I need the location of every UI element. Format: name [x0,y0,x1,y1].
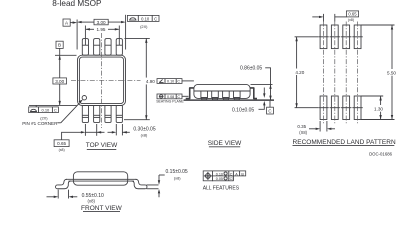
front view right gull-wing [132,179,148,188]
front view label [81,205,123,212]
dimension 0.65 pitch with leader [54,131,104,152]
front view body [73,172,127,185]
svg-text:C: C [154,16,157,21]
side view label [208,140,242,147]
svg-text:0.05: 0.05 [216,177,223,181]
extension line left of 3.00 width [76,20,78,50]
datum C [267,101,274,114]
svg-text:0.65: 0.65 [348,12,357,17]
top view vertical centerline [101,33,103,128]
svg-text:SEATING PLANE: SEATING PLANE [156,99,184,103]
svg-text:1.30: 1.30 [374,106,383,111]
front view lead lines through body [66,179,137,181]
svg-text:C: C [230,172,233,176]
dimension 5.50 [361,25,399,120]
svg-text:0.35: 0.35 [297,124,306,129]
land pattern bottom row pads [320,96,361,120]
feature control frame side lower (0.08 C seating plane) [157,94,189,99]
top view body [78,55,126,105]
svg-text:0.86±0.05: 0.86±0.05 [240,66,262,72]
side view leads [201,91,240,100]
svg-text:ALL FEATURES: ALL FEATURES [203,185,240,191]
top view label [86,142,118,149]
svg-text:PIN #1 CORNER: PIN #1 CORNER [22,121,58,126]
datum A [63,19,77,26]
dimension 0.35 pad width [297,121,335,135]
feature control frame bottom left (profile 0.10 C) [29,105,59,112]
svg-text:0.10: 0.10 [167,80,174,84]
svg-text:0.10±0.05: 0.10±0.05 [232,107,254,113]
svg-text:0.15±0.05: 0.15±0.05 [166,169,188,175]
svg-text:DOC-01686: DOC-01686 [369,152,393,157]
svg-text:(x8): (x8) [174,176,181,181]
dimension 0.30±0.05 lead width [108,126,156,137]
side view left gull-wing lead [186,88,194,99]
svg-text:5.50: 5.50 [387,71,396,76]
svg-text:(x8): (x8) [348,18,354,22]
svg-text:C: C [54,108,57,113]
bottom extension lines under leads [85,124,122,136]
svg-text:8-lead MSOP: 8-lead MSOP [52,0,102,8]
svg-text:SIDE VIEW: SIDE VIEW [208,140,242,147]
top view horizontal centerline [71,80,141,82]
svg-text:(x8): (x8) [87,199,95,204]
pin #1 corner label [22,100,83,126]
svg-text:(x8): (x8) [141,132,148,137]
dimension 0.86±0.05 [240,66,273,101]
svg-text:4.20: 4.20 [295,70,304,75]
dimension 4.90 [124,38,158,119]
svg-text:C: C [268,108,271,113]
svg-text:1.95: 1.95 [97,27,106,32]
dimension 0.65 pad pitch [312,11,358,22]
side view body [194,84,250,98]
dimension 1.30 pad length [361,96,387,120]
svg-text:(2X): (2X) [140,24,148,29]
svg-text:(X8): (X8) [299,130,307,135]
top view upper leads [82,39,122,56]
feature control frame side upper (angularity 0.10 C) [157,79,194,84]
dimension 0.55±0.10 foot length [47,190,105,204]
svg-text:0.08: 0.08 [167,95,174,99]
svg-text:0.10: 0.10 [42,108,51,113]
dimension 0.10±0.05 standoff [232,88,266,114]
dimension 3.00 horizontal [77,19,126,25]
dimension 1.95 [85,26,119,46]
svg-text:0.10: 0.10 [216,172,223,176]
svg-text:FRONT VIEW: FRONT VIEW [81,205,123,212]
extension line right of 3.00 width [125,15,127,50]
svg-text:3.00: 3.00 [97,20,106,25]
dimension 4.20 [291,37,318,108]
svg-text:B: B [58,43,61,48]
position tolerance frame [203,171,246,181]
datum B [56,41,63,48]
dimension 3.00 vertical [29,48,77,105]
svg-text:0.65: 0.65 [57,141,66,146]
svg-text:(x8): (x8) [59,148,65,152]
svg-text:(2X): (2X) [40,115,48,120]
top view lower leads [82,105,122,122]
feature control frame top right (profile 0.10 C) [127,15,159,21]
land pattern pad cross ticks [295,37,363,108]
svg-text:TOP VIEW: TOP VIEW [86,142,118,149]
land pattern top row pads [320,25,361,49]
dimension 0.15±0.05 lead thickness [147,169,188,197]
svg-text:RECOMMENDED LAND PATTERN: RECOMMENDED LAND PATTERN [293,139,396,146]
land pattern pad centerlines [324,22,358,125]
side view right gull-wing lead [250,88,257,99]
svg-text:4.90: 4.90 [146,79,155,84]
svg-text:3.00: 3.00 [55,79,64,84]
svg-text:C: C [177,95,180,99]
svg-text:C: C [177,80,180,84]
pin 1 circle [82,96,86,100]
land pattern label [293,139,396,146]
front view left gull-wing [56,179,72,188]
svg-text:C: C [230,177,233,181]
svg-text:0.10: 0.10 [141,16,150,21]
seating plane line [184,99,274,101]
